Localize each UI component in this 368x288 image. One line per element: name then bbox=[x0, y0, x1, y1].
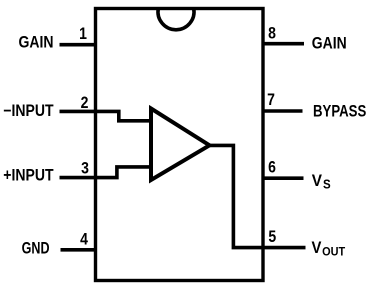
svg-text:−INPUT: −INPUT bbox=[3, 102, 54, 120]
svg-text:BYPASS: BYPASS bbox=[313, 102, 366, 121]
svg-text:1: 1 bbox=[79, 25, 87, 43]
svg-text:4: 4 bbox=[80, 230, 88, 248]
svg-text:6: 6 bbox=[268, 158, 276, 176]
svg-text:3: 3 bbox=[81, 159, 89, 177]
svg-text:OUT: OUT bbox=[322, 246, 345, 259]
svg-text:8: 8 bbox=[268, 24, 276, 42]
svg-text:GND: GND bbox=[22, 240, 50, 258]
svg-text:5: 5 bbox=[268, 228, 276, 246]
svg-text:GAIN: GAIN bbox=[312, 34, 347, 52]
svg-text:2: 2 bbox=[81, 94, 89, 112]
svg-text:S: S bbox=[323, 177, 331, 192]
svg-text:V: V bbox=[312, 173, 323, 191]
svg-text:+INPUT: +INPUT bbox=[3, 167, 54, 185]
svg-text:7: 7 bbox=[267, 91, 275, 109]
svg-text:GAIN: GAIN bbox=[18, 33, 53, 51]
svg-text:V: V bbox=[312, 239, 322, 257]
